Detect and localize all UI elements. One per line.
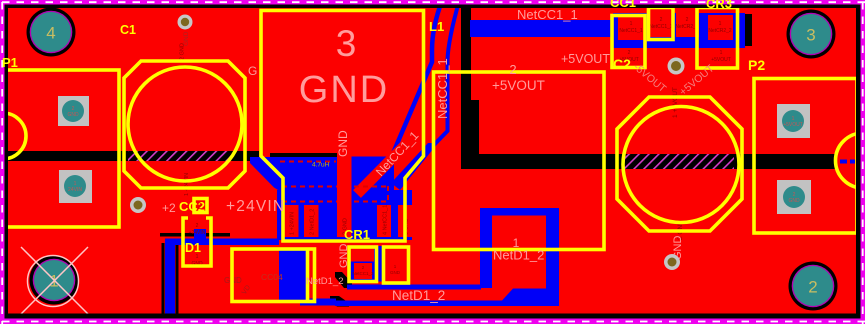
blue trace CC2 horizontal bbox=[165, 239, 279, 246]
bottom layer pad field CC1 CR3 (blue) bbox=[613, 13, 745, 48]
svg-text:1 +5VOUT: 1 +5VOUT bbox=[672, 87, 679, 118]
svg-text:4 NetCC1_1: 4 NetCC1_1 bbox=[383, 205, 389, 235]
clearance notch near NetD1_2 trace bbox=[330, 296, 349, 307]
pad CC1-1 bbox=[618, 16, 644, 40]
svg-text:G: G bbox=[248, 64, 257, 78]
blue connect D1 bottom bbox=[300, 299, 336, 306]
pad U1-1 column bbox=[284, 205, 299, 237]
bottom copper block in D1 bbox=[279, 250, 308, 301]
blue trace upper NetD1 bbox=[347, 285, 481, 290]
mounting hole 2 bbox=[789, 262, 838, 311]
pad CR1-2 bbox=[354, 263, 372, 279]
pin1 marker box CC2 bbox=[194, 199, 207, 213]
mounting hole 1 bbox=[30, 256, 79, 305]
svg-text:NetCC1_1: NetCC1_1 bbox=[619, 28, 643, 34]
blue trace bundle left line bbox=[362, 0, 443, 188]
clearance stub right of blue bus bbox=[745, 14, 752, 46]
pad P1-2 GND bbox=[58, 96, 89, 126]
courtyard dashed lines U1 bbox=[280, 162, 390, 203]
via near CC2 bbox=[130, 197, 146, 213]
pad U1-3 column and GND stem bbox=[337, 152, 352, 237]
pad CR3-1 bbox=[708, 15, 733, 40]
svg-text:+5VOUT: +5VOUT bbox=[561, 52, 610, 66]
svg-text:NetCC1_1: NetCC1_1 bbox=[435, 58, 450, 119]
connector P2 outline bbox=[754, 79, 857, 234]
clearance line above CC2 trace bbox=[160, 233, 230, 237]
blue vertical between CR1 pads bbox=[374, 246, 384, 282]
blue trace CC2 vertical to edge bbox=[165, 243, 175, 314]
capacitor C3 outline octagon bbox=[617, 97, 742, 231]
svg-text:GND: GND bbox=[336, 130, 350, 157]
bottom copper region C pad row U1 bbox=[277, 190, 412, 240]
mounting hole arc right edge bbox=[836, 133, 865, 188]
svg-text:+5VOUT: +5VOUT bbox=[492, 78, 545, 93]
blue box D2 left vertical bbox=[480, 208, 492, 288]
svg-text:+5VOUT: +5VOUT bbox=[711, 57, 731, 63]
blue dashes on right clearance bar bbox=[840, 160, 847, 164]
mounting hole arc left edge bbox=[0, 113, 26, 159]
svg-text:P1: P1 bbox=[2, 55, 18, 70]
svg-text:NetCC1_1: NetCC1_1 bbox=[649, 24, 673, 30]
via bottom right bbox=[664, 254, 680, 270]
net label texts pink bbox=[162, 7, 684, 303]
blue via patch in CC2 bbox=[194, 229, 206, 241]
svg-text:2 GND: 2 GND bbox=[180, 43, 186, 60]
regulator U1 outline with chamfers bbox=[261, 11, 424, 242]
svg-text:+2: +2 bbox=[162, 201, 176, 215]
svg-text:CC04: CC04 bbox=[261, 272, 283, 282]
blue trace lower NetD1_2 bbox=[335, 301, 511, 307]
svg-text:1 +24VIN: 1 +24VIN bbox=[184, 173, 190, 196]
svg-text:2: 2 bbox=[686, 17, 689, 23]
blue trace blob bottom bbox=[497, 289, 559, 307]
pad net labels dark red bbox=[189, 17, 732, 276]
svg-text:GND: GND bbox=[390, 270, 401, 275]
origin crosshair marker on hole 1 bbox=[21, 247, 88, 314]
blue diagonal trace from region B bbox=[391, 143, 438, 190]
red trace NetCC1_1 top bundle bbox=[357, 120, 430, 194]
svg-text:P2: P2 bbox=[748, 57, 765, 73]
blue box D2 right vertical bbox=[546, 208, 559, 303]
mounting hole 4 bbox=[27, 8, 76, 57]
svg-text:NetD1_2: NetD1_2 bbox=[392, 288, 445, 303]
svg-text:3: 3 bbox=[806, 26, 815, 45]
pad U1-4 column bbox=[377, 205, 391, 237]
svg-text:4.7uH: 4.7uH bbox=[312, 162, 330, 169]
svg-text:1: 1 bbox=[630, 21, 633, 27]
capacitor CC2 outline U shape bbox=[183, 218, 211, 266]
silkscreen designator texts bbox=[120, 19, 765, 255]
diode D1 outline bbox=[232, 249, 315, 302]
capacitor C3 circle bbox=[623, 107, 739, 223]
svg-text:CR3: CR3 bbox=[706, 0, 732, 11]
svg-text:NetCC1_3: NetCC1_3 bbox=[352, 271, 374, 276]
U1 pad labels vertical bbox=[290, 205, 410, 235]
blue box D2 top bar bbox=[480, 208, 559, 216]
svg-text:C1: C1 bbox=[120, 23, 136, 37]
bracket CC1 pad2 bbox=[649, 8, 674, 40]
bottom copper region B under U1 right bbox=[351, 157, 394, 191]
diode CR1 outline boxes bbox=[349, 247, 377, 282]
pad U1-5 column bbox=[398, 205, 412, 237]
diode CR3 outline bbox=[697, 8, 738, 69]
clearance thin line above blue region A bbox=[270, 153, 338, 158]
connector P1 outline bbox=[5, 70, 119, 227]
svg-text:+5VOUT: +5VOUT bbox=[783, 122, 803, 128]
svg-text:NetCC1_1: NetCC1_1 bbox=[517, 7, 578, 22]
capacitor C2 outline bbox=[434, 72, 605, 250]
bottom layer bus bar (blue) bbox=[470, 20, 613, 37]
pad P2-1 5VOUT bbox=[777, 104, 810, 138]
svg-text:L1: L1 bbox=[429, 19, 444, 34]
svg-text:CR1: CR1 bbox=[344, 227, 370, 242]
svg-text:NetD1_2: NetD1_2 bbox=[493, 248, 544, 263]
pad CR3-2 bbox=[676, 12, 699, 37]
capacitor C1 circle bbox=[128, 67, 242, 181]
hatched cutout in right clearance bar bbox=[622, 154, 734, 169]
svg-text:2: 2 bbox=[808, 278, 817, 297]
svg-text:+24VIN: +24VIN bbox=[189, 230, 206, 236]
svg-text:2: 2 bbox=[197, 201, 202, 211]
svg-text:2: 2 bbox=[509, 62, 516, 77]
pad P1-1 24VIN bbox=[59, 170, 92, 203]
svg-text:1: 1 bbox=[720, 50, 723, 56]
svg-text:24VIN: 24VIN bbox=[68, 187, 82, 193]
svg-text:3: 3 bbox=[336, 23, 357, 64]
svg-text:GND: GND bbox=[299, 69, 389, 111]
capacitor C1 outline octagon bbox=[124, 61, 245, 188]
pad P2-2 GND bbox=[777, 180, 811, 214]
pad U1-2 column bbox=[304, 205, 319, 237]
clearance bar left (black) bbox=[4, 151, 259, 161]
mounting hole 3 bbox=[787, 10, 836, 59]
svg-text:2 NetD1_2: 2 NetD1_2 bbox=[310, 209, 316, 235]
blue ring CR1 pad bbox=[350, 262, 376, 282]
svg-text:GND: GND bbox=[788, 198, 800, 204]
clearance bar right (black) bbox=[461, 154, 837, 169]
svg-text:2: 2 bbox=[196, 223, 199, 229]
svg-text:1 +24VIN: 1 +24VIN bbox=[290, 212, 296, 235]
capacitor CC1 outline bbox=[612, 16, 645, 68]
svg-text:NetD1_2: NetD1_2 bbox=[306, 276, 344, 287]
svg-text:4: 4 bbox=[46, 24, 55, 43]
svg-text:CC1: CC1 bbox=[610, 0, 636, 10]
bottom copper region A under U1 left bbox=[250, 157, 338, 190]
clearance notch near CR1 trace bbox=[335, 272, 352, 288]
pad CR1-1 bbox=[386, 262, 405, 277]
pad CC1-2 bbox=[650, 12, 673, 37]
blue trace bundle right line bbox=[430, 0, 460, 149]
svg-text:NetCR2_2: NetCR2_2 bbox=[708, 28, 732, 34]
svg-text:D1: D1 bbox=[185, 241, 201, 255]
svg-text:2: 2 bbox=[660, 17, 663, 23]
hatched cutout in left clearance bar bbox=[128, 151, 232, 161]
svg-text:1: 1 bbox=[719, 21, 722, 27]
via center right bbox=[668, 58, 685, 75]
clearance stripe vertical center (black) bbox=[461, 5, 471, 105]
svg-text:GND: GND bbox=[67, 112, 79, 118]
clearance edges of vertical blue trace bbox=[162, 243, 165, 314]
svg-text:GND: GND bbox=[338, 244, 350, 269]
svg-text:C2: C2 bbox=[613, 56, 631, 72]
via GND top bbox=[178, 15, 193, 30]
svg-text:+24VIN: +24VIN bbox=[226, 198, 285, 215]
via net labels small bbox=[180, 31, 685, 240]
